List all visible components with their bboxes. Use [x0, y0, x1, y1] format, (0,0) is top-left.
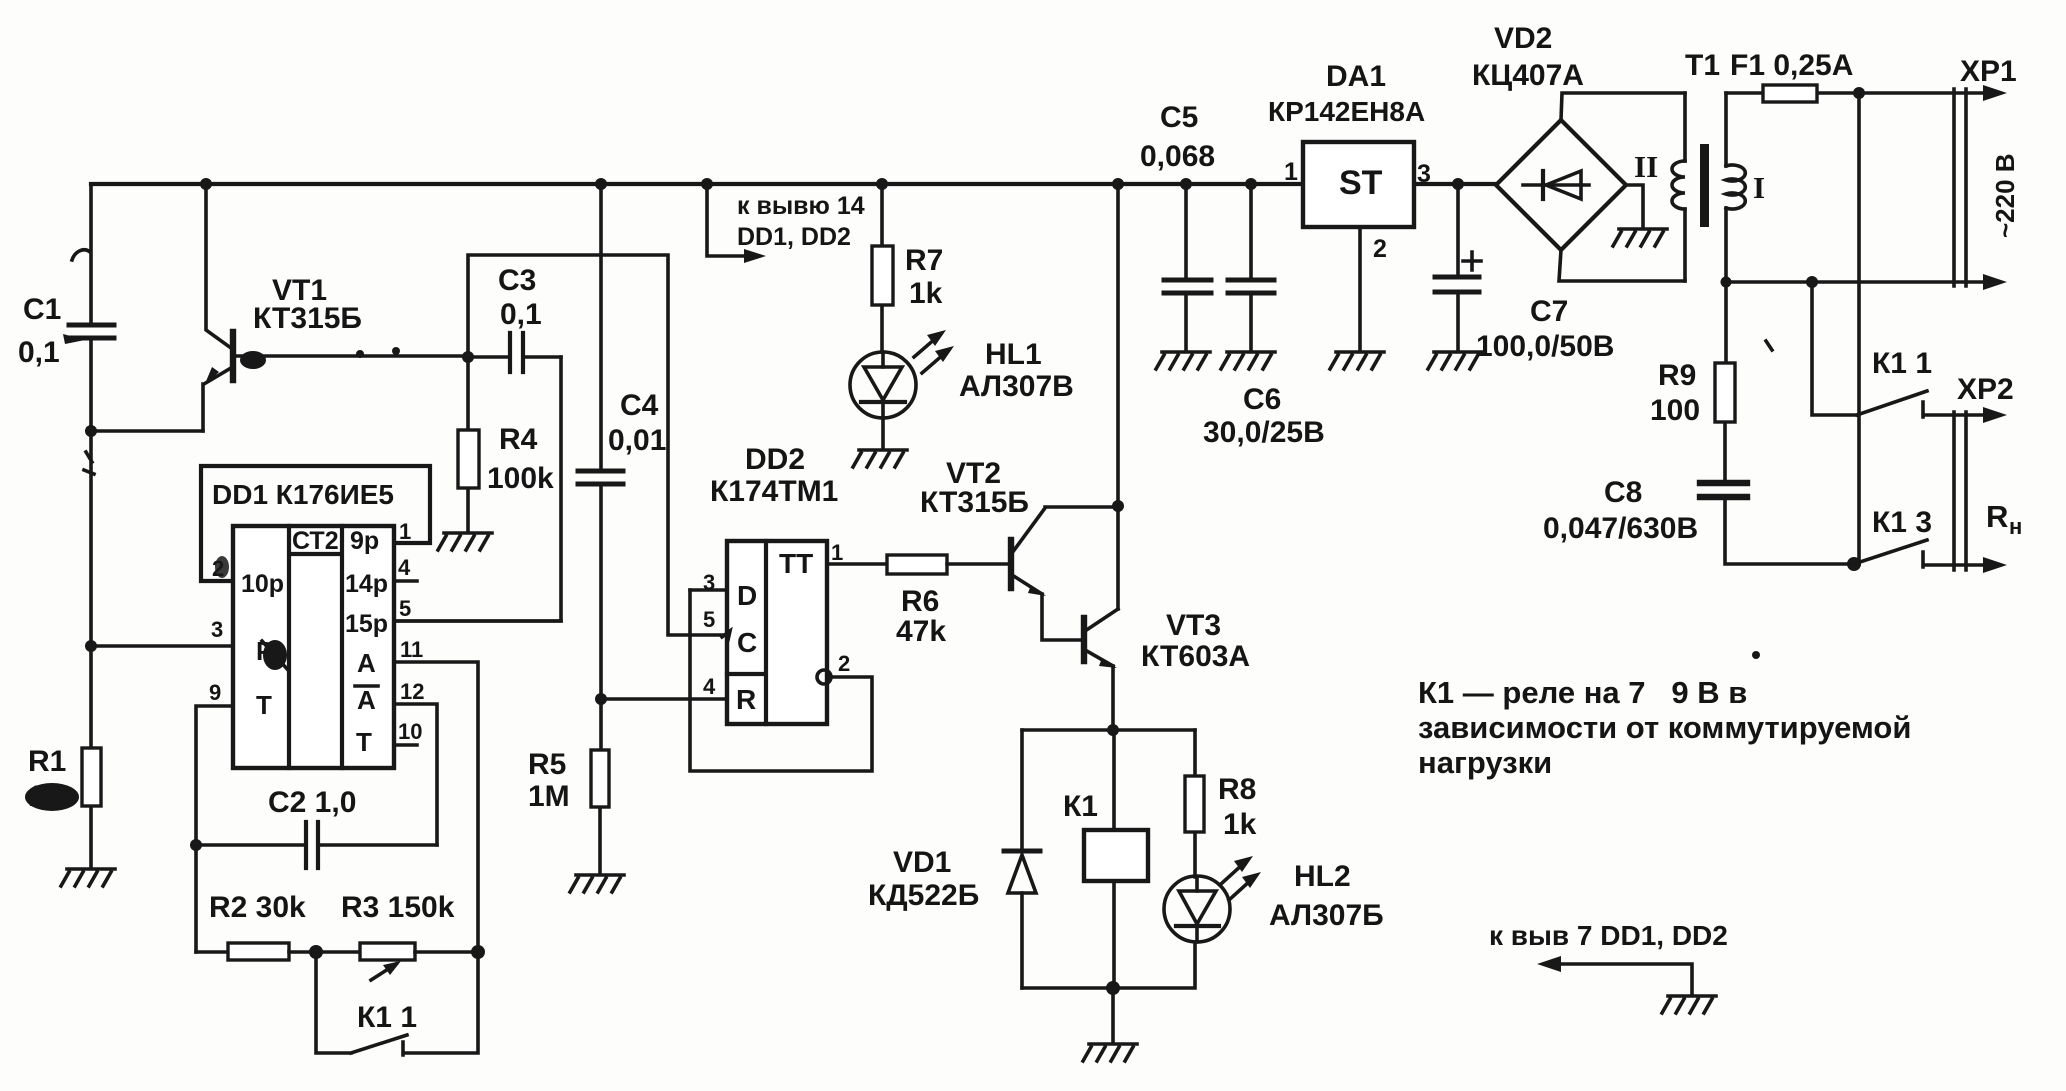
svg-text:Т: Т: [356, 727, 372, 757]
pin 3 of DD1 wire to left rail: [91, 644, 233, 648]
pin 10 of DD1 (stub): [394, 743, 417, 747]
svg-text:4: 4: [398, 555, 411, 580]
relay coil K1: [1063, 730, 1148, 988]
svg-text:КР142ЕН8А: КР142ЕН8А: [1268, 96, 1425, 127]
node: junction dots on supply rail: [200, 178, 212, 190]
wire: rail segment DA1 pin3 to bridge: [1414, 182, 1496, 186]
wire: junction up-over to DD2 clock input: [468, 255, 727, 635]
svg-text:DD1 К176ИЕ5: DD1 К176ИЕ5: [212, 479, 394, 510]
svg-text:нагрузки: нагрузки: [1418, 745, 1552, 780]
svg-text:2: 2: [838, 651, 850, 676]
resistor R7: [872, 184, 943, 352]
svg-text:R7: R7: [905, 244, 943, 277]
svg-text:C: C: [737, 627, 757, 658]
resistor R5: [528, 699, 609, 874]
wire: R2-R3 link: [289, 950, 360, 954]
svg-text:1: 1: [399, 519, 411, 544]
svg-text:н: н: [2009, 514, 2022, 539]
svg-text:VD1: VD1: [893, 846, 951, 879]
svg-text:0,1: 0,1: [18, 336, 60, 369]
svg-text:II: II: [1634, 149, 1658, 184]
svg-text:к вывю 14: к вывю 14: [737, 192, 865, 220]
wire: main +V drop to VT2/VT3 collectors: [1116, 184, 1120, 609]
node: DD1 pin3 junction on left rail: [85, 640, 97, 652]
svg-text:С6: С6: [1243, 383, 1281, 416]
svg-text:А: А: [357, 685, 376, 715]
svg-text:R2 30k: R2 30k: [209, 891, 306, 924]
wire: VT1 base line: [235, 354, 468, 358]
svg-text:15р: 15р: [345, 610, 388, 638]
resistor R3 (adjustable): [341, 891, 455, 980]
svg-text:DD1, DD2: DD1, DD2: [737, 223, 851, 251]
pin 11 of DD1 wire to R3 right: [394, 662, 478, 952]
ground at pin7 net: [1662, 996, 1716, 1013]
capacitor C4: [578, 184, 666, 699]
svg-text:АЛ307В: АЛ307В: [959, 370, 1074, 403]
svg-text:10: 10: [398, 719, 422, 744]
IC DD1 body: [233, 526, 394, 768]
svg-text:1: 1: [831, 540, 843, 565]
pin 3 of DD2 (D input) feedback entry: [690, 588, 727, 592]
relay contact K1.1 (mains): [1857, 347, 1985, 417]
svg-text:С3: С3: [498, 264, 536, 297]
note: K1 relay description: [1418, 675, 1911, 780]
ground under relay node: [1083, 1044, 1137, 1061]
LED HL2: [1164, 856, 1384, 942]
capacitor C7 (electrolytic): [1435, 184, 1614, 363]
net label: to pin 14 DD1, DD2: [707, 184, 865, 263]
winding II: [1683, 93, 1687, 161]
svg-text:КТ315Б: КТ315Б: [253, 302, 362, 335]
ground under HL1: [853, 450, 907, 467]
wire: VT1 emitter to left rail: [92, 429, 203, 433]
svg-text:К1 3: К1 3: [1872, 506, 1932, 539]
svg-text:1k: 1k: [909, 277, 943, 310]
svg-text:VT3: VT3: [1166, 609, 1221, 642]
pin 9 of DD1 wire down to C2/R2: [196, 706, 233, 952]
svg-text:R3 150k: R3 150k: [341, 891, 455, 924]
wire: DD2 feedback loop Q- to D: [690, 590, 872, 771]
svg-text:4: 4: [703, 674, 716, 699]
svg-text:К1: К1: [1063, 790, 1098, 823]
svg-text:5: 5: [399, 596, 411, 621]
bridge rectifier VD2 KC407A: [1472, 22, 1626, 250]
LED HL1: [850, 330, 1074, 449]
svg-text:ST: ST: [1339, 164, 1383, 202]
wire: bottom return to ground node: [1022, 942, 1195, 988]
pin 5 of DD1: [394, 619, 561, 623]
svg-text:0,01: 0,01: [608, 424, 666, 457]
wire: K1.1 feed from mains bottom: [1812, 282, 1857, 415]
relay contact K1.1 (timing chain): [316, 952, 478, 1055]
svg-text:R5: R5: [528, 748, 566, 781]
wire: stem to ground: [1111, 988, 1115, 1043]
ground under C7: [1428, 352, 1482, 369]
svg-text:0,068: 0,068: [1140, 140, 1215, 173]
connector XP2 plug lines: [1954, 412, 1966, 570]
svg-text:D: D: [737, 580, 757, 611]
ground at bridge right: [1613, 229, 1667, 246]
svg-text:10р: 10р: [241, 570, 284, 598]
svg-text:5: 5: [703, 607, 715, 632]
svg-text:С8: С8: [1604, 476, 1642, 509]
transformer T1: [1634, 49, 1765, 282]
svg-text:0,047/630В: 0,047/630В: [1543, 512, 1698, 545]
svg-text:С4: С4: [620, 389, 659, 422]
wire: left rail (sensor input column): [89, 184, 93, 868]
capacitor C3: [468, 264, 561, 372]
svg-text:КТ315Б: КТ315Б: [920, 486, 1029, 519]
svg-text:К174ТМ1: К174ТМ1: [710, 475, 838, 508]
svg-text:КЦ407А: КЦ407А: [1472, 59, 1584, 92]
svg-text:А: А: [357, 648, 376, 678]
node: collector junction: [1112, 500, 1124, 512]
svg-text:F1 0,25А: F1 0,25А: [1730, 49, 1853, 82]
pin 2 of DA1: [1358, 227, 1362, 351]
svg-text:С5: С5: [1160, 101, 1198, 134]
pin 1 of DD2 output to R6: [827, 562, 887, 566]
connector XP1 arrow top: [1983, 85, 2007, 101]
svg-text:R4: R4: [499, 423, 538, 456]
svg-text:I: I: [1753, 170, 1765, 205]
svg-text:С1: С1: [23, 293, 61, 326]
wire: +9V top supply rail: [91, 182, 1304, 186]
node: emitter junction on left rail: [85, 425, 97, 437]
node: C4 / R5 / DD2 R junction: [595, 693, 607, 705]
svg-text:2: 2: [1373, 235, 1387, 263]
ink blob on base wire: [240, 351, 266, 369]
svg-text:12: 12: [400, 679, 424, 704]
svg-text:HL2: HL2: [1294, 860, 1351, 893]
wire: mains bottom leg: [1726, 280, 1985, 284]
svg-text:9: 9: [209, 680, 221, 705]
transistor VT3: [1084, 609, 1250, 730]
svg-text:VD2: VD2: [1494, 22, 1552, 55]
pin 4 of DD1 (stub): [394, 579, 417, 583]
capacitor C1: [18, 293, 114, 369]
svg-text:HL1: HL1: [985, 338, 1042, 371]
node: K1.1 branch junction: [1806, 276, 1818, 288]
svg-text:~220 В: ~220 В: [1990, 153, 2020, 238]
svg-text:R6: R6: [901, 585, 939, 618]
wire: mains top leg through fuse: [1726, 91, 1985, 95]
svg-text:DD2: DD2: [745, 443, 805, 476]
svg-text:R1: R1: [28, 745, 66, 778]
pin 12 of DD1 wire to C2 right: [394, 704, 437, 845]
svg-text:100,0/50В: 100,0/50В: [1476, 330, 1614, 363]
capacitor C2: [196, 786, 437, 868]
ground under C5: [1156, 352, 1210, 369]
connector arrow to load: [1983, 557, 2007, 573]
fuse F1: [1730, 49, 1853, 102]
connector XP1 plug lines: [1954, 89, 1966, 286]
svg-text:КД522Б: КД522Б: [868, 879, 979, 912]
scan artifacts: [72, 250, 90, 260]
svg-text:СТ2: СТ2: [292, 527, 339, 555]
svg-text:С7: С7: [1530, 295, 1568, 328]
svg-text:Т: Т: [256, 690, 272, 720]
svg-text:R: R: [736, 684, 756, 715]
wire: bridge AC bottom to winding II bottom: [1559, 250, 1685, 281]
svg-text:к выв 7 DD1, DD2: к выв 7 DD1, DD2: [1489, 920, 1728, 951]
resistor R2: [196, 891, 306, 960]
capacitor C5: [1140, 101, 1215, 351]
node: VT3 emitter node: [1107, 724, 1119, 736]
svg-text:1: 1: [1284, 158, 1298, 186]
svg-text:3: 3: [703, 570, 715, 595]
wire: bridge AC top to winding II top: [1561, 93, 1685, 120]
svg-text:ХР1: ХР1: [1960, 55, 2017, 88]
ground under DA1: [1330, 352, 1384, 369]
ground under R4: [438, 533, 492, 550]
node: base / C3 / R4 junction: [462, 351, 474, 363]
wire: C3 to DD1 pin5 loop: [395, 357, 561, 621]
svg-text:С2 1,0: С2 1,0: [268, 786, 356, 819]
svg-text:9р: 9р: [350, 527, 379, 555]
svg-text:КТ603А: КТ603А: [1141, 640, 1250, 673]
svg-text:100: 100: [1650, 394, 1700, 427]
winding I: [1724, 93, 1728, 166]
svg-text:К1 — реле на 7 9 В в: К1 — реле на 7 9 В в: [1418, 675, 1747, 710]
node: R3 right junction: [471, 945, 485, 959]
relay contact K1.3: [1854, 506, 1985, 567]
wire: junction to DD2 R input: [601, 697, 727, 701]
transistor VT1: [203, 184, 362, 431]
svg-text:R8: R8: [1218, 773, 1256, 806]
svg-text:К1 1: К1 1: [1872, 347, 1932, 380]
node: K1.3 junction: [1847, 557, 1861, 571]
net label: to pin 7 DD1, DD2 with ground: [1489, 920, 1728, 995]
svg-text:1М: 1М: [528, 780, 570, 813]
regulator DA1 KR142EN8A: [1268, 60, 1425, 227]
resistor R9: [1650, 282, 1735, 479]
core: [1700, 144, 1709, 227]
resistor R4: [458, 357, 554, 532]
svg-text:ТТ: ТТ: [779, 548, 813, 579]
svg-text:АЛ307Б: АЛ307Б: [1269, 899, 1384, 932]
node: R2/R3 junction: [309, 945, 323, 959]
transistor VT2: [920, 457, 1118, 640]
svg-text:R9: R9: [1658, 359, 1696, 392]
ground under R5: [570, 875, 624, 892]
svg-text:зависимости от коммутируемой: зависимости от коммутируемой: [1418, 710, 1911, 745]
node: junction T1 bottom: [1721, 277, 1732, 288]
wire: emitter node horizontal: [1022, 728, 1195, 732]
resistor R1: [25, 745, 101, 813]
svg-text:14р: 14р: [345, 570, 388, 598]
node: XP1 branch junction: [1853, 87, 1865, 99]
svg-text:Т1: Т1: [1685, 49, 1720, 82]
capacitor C8: [1543, 476, 1854, 564]
ground under C6: [1221, 352, 1275, 369]
svg-text:3: 3: [1417, 160, 1431, 188]
capacitor C6: [1203, 184, 1325, 449]
svg-text:3: 3: [211, 617, 223, 642]
node: ground node junction: [1106, 981, 1120, 995]
ground under R1: [61, 869, 115, 886]
diode VD1: [868, 730, 1040, 988]
wire: bridge right corner to ground: [1626, 185, 1643, 228]
svg-text:ХР2: ХР2: [1957, 373, 2014, 406]
svg-text:11: 11: [400, 637, 423, 662]
svg-text:R: R: [1986, 499, 2008, 534]
svg-text:1k: 1k: [1223, 808, 1257, 841]
pin 2 of DD2 inverted output: [817, 670, 831, 684]
svg-text:47k: 47k: [896, 615, 946, 648]
node: C2 left junction: [190, 839, 202, 851]
wire: switched leg vertical: [1857, 93, 1861, 564]
wire: R3 to pin11 drop: [415, 950, 478, 954]
connector XP1 arrow bottom: [1983, 274, 2007, 290]
connector XP2 arrow: [1983, 407, 2007, 423]
resistor R6: [887, 555, 1008, 648]
svg-text:100k: 100k: [487, 462, 554, 495]
svg-text:30,0/25В: 30,0/25В: [1203, 416, 1325, 449]
IC DD1 K176IE5: outer label box: [201, 466, 430, 581]
IC DD2 K174TM1 flip-flop body: [710, 443, 838, 724]
svg-text:0,1: 0,1: [500, 298, 542, 331]
resistor R8: [1185, 730, 1257, 877]
svg-text:К1 1: К1 1: [357, 1001, 417, 1034]
svg-text:DA1: DA1: [1326, 60, 1386, 93]
